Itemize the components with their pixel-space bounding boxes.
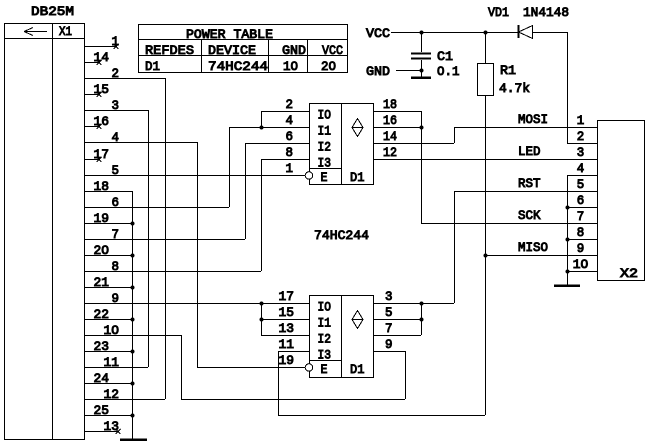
power table header VCC (322, 43, 343, 58)
pin 23 of X1 ground tap (84, 339, 135, 354)
svg-text:7: 7 (577, 209, 585, 224)
pin 22 of X1 ground tap (84, 307, 135, 322)
svg-text:SCK: SCK (518, 208, 541, 223)
node LED label (518, 144, 541, 159)
svg-text:LED: LED (518, 144, 541, 159)
svg-text:19: 19 (94, 211, 110, 226)
upper buffer direction diamond (352, 119, 363, 137)
pin 10 of X2 number (573, 257, 589, 272)
wire VCC to X2 pin2 (567, 32, 597, 144)
svg-text:R1: R1 (500, 63, 516, 78)
svg-text:12: 12 (383, 145, 397, 160)
svg-text:17: 17 (279, 289, 295, 304)
svg-text:O.1: O.1 (437, 64, 460, 79)
value 0.1 (437, 64, 460, 79)
svg-text:9: 9 (577, 241, 585, 256)
value 4.7k (499, 81, 530, 96)
wire pin6 X1 to I0/I1 of upper buffer (84, 127, 230, 210)
label DB25M (31, 4, 74, 19)
svg-text:4.7k: 4.7k (499, 81, 530, 96)
wire pin4 X1 to E input of lower buffer (84, 130, 305, 368)
svg-text:D1: D1 (350, 362, 365, 377)
label C1 (437, 49, 453, 64)
svg-text:RST: RST (518, 176, 541, 191)
pin 16 of X1 (unconnected stub) (84, 114, 109, 129)
upper buffer enable pin 1 (286, 161, 294, 176)
svg-text:4: 4 (286, 113, 294, 128)
pin 25 of X1 ground tap (84, 403, 135, 418)
wire upper I1 input, pin 4 (229, 113, 309, 128)
pin 19 of X1 ground tap (84, 211, 135, 226)
svg-text:I3: I3 (318, 348, 332, 363)
pin 5 of X2 number (577, 177, 585, 192)
svg-text:E: E (321, 362, 328, 377)
svg-text:1N4148: 1N4148 (523, 5, 569, 20)
svg-text:9: 9 (112, 291, 120, 306)
svg-text:D1: D1 (350, 170, 365, 185)
lower buffer D1 body (309, 295, 374, 378)
svg-text:GND: GND (282, 43, 306, 58)
wire upper I2 input, pin 6 (245, 129, 309, 144)
op-amp U? : upper buffer D1 body (309, 103, 374, 185)
svg-text:3: 3 (577, 145, 585, 160)
svg-text:12: 12 (104, 387, 120, 402)
wire pin5 X1 to E input of upper buffer (84, 163, 305, 178)
pin 1 of X2 number (577, 113, 585, 128)
connector X2 body (598, 121, 645, 281)
wire upper I0 input, pin 2 (259, 97, 309, 130)
pin 11 of X1 stub (84, 355, 148, 370)
svg-text:3: 3 (385, 289, 393, 304)
capacitor C1 (411, 32, 431, 70)
pin 3 of X2 number (577, 145, 585, 160)
svg-text:8: 8 (286, 145, 294, 160)
svg-text:MOSI: MOSI (518, 112, 548, 127)
pin 21 of X1 ground tap (84, 275, 135, 290)
wire pin8 X1 to I3 of upper buffer (84, 159, 262, 274)
svg-text:23: 23 (94, 339, 110, 354)
pin 15 of X1 (unconnected stub) (84, 82, 109, 97)
svg-text:3: 3 (112, 98, 120, 113)
node VCC label (366, 26, 390, 41)
svg-text:13: 13 (104, 419, 120, 434)
node GND label (366, 64, 390, 79)
svg-text:11: 11 (104, 355, 120, 370)
svg-text:18: 18 (383, 97, 397, 112)
svg-text:4: 4 (577, 161, 585, 176)
wire lower I0 input tie, pin 17 (259, 289, 294, 335)
power table frame (138, 25, 348, 73)
wire R1 to MISO net and lower I3 (483, 95, 487, 415)
pin 13 of X1 (unconnected stub) (84, 419, 121, 434)
svg-text:E: E (321, 170, 328, 185)
svg-text:1: 1 (286, 161, 294, 176)
lower buffer direction diamond (352, 311, 363, 329)
svg-text:18: 18 (94, 179, 110, 194)
power table header GND (282, 43, 306, 58)
connector X1 DB25M body (4, 23, 85, 440)
power table value 20 (321, 59, 336, 74)
svg-text:2: 2 (286, 97, 294, 112)
svg-text:VCC: VCC (366, 26, 390, 41)
svg-text:IO: IO (318, 108, 332, 123)
wire lower I3 input from MISO net, pin 11 (278, 337, 485, 416)
pin 6 of X2 number (577, 193, 585, 208)
wire upper output 12 / LED net to X2 pin3 (373, 145, 597, 160)
pin 20 of X1 ground tap (84, 243, 135, 258)
diode VD1 1N4148 (519, 25, 568, 39)
upper buffer enable circle (305, 172, 313, 180)
svg-text:X1: X1 (59, 24, 72, 39)
node MISO wire to X2 pin9 (485, 240, 597, 256)
svg-text:16: 16 (383, 113, 397, 128)
wire upper output 14 to MOSI net (373, 127, 455, 144)
ground symbol below X2 (554, 284, 580, 287)
wire VCC rail (391, 30, 518, 34)
wire pin3 X1 to pin11 X1 loopback net (84, 98, 149, 367)
label X1 (59, 24, 72, 39)
value 1N4148 (523, 5, 569, 20)
upper buffer label E (321, 170, 328, 185)
wire X2 ground pins 4,6,8,10 (565, 175, 597, 285)
svg-text:5: 5 (577, 177, 585, 192)
svg-text:15: 15 (94, 82, 110, 97)
lower buffer label I1 (318, 316, 332, 331)
wire lower output 3 to RST net (373, 191, 455, 306)
svg-text:9: 9 (385, 337, 393, 352)
svg-text:1O: 1O (573, 257, 589, 272)
lower buffer label I3 (318, 348, 332, 363)
svg-text:11: 11 (279, 337, 295, 352)
svg-text:REFDES: REFDES (145, 43, 194, 58)
power table title POWER TABLE (186, 27, 273, 42)
svg-text:25: 25 (94, 403, 110, 418)
svg-text:6: 6 (112, 195, 120, 210)
svg-text:1: 1 (577, 113, 585, 128)
svg-text:MISO: MISO (518, 240, 548, 255)
ground symbol at bottom of X1 ground bus (120, 438, 147, 441)
power table header DEVICE (208, 43, 256, 58)
wire lower output 7 join (373, 321, 421, 336)
wire lower I1 input, pin 15 (261, 305, 309, 320)
svg-text:14: 14 (383, 129, 397, 144)
wire upper output 18 to SCK net (373, 97, 422, 223)
svg-text:I2: I2 (318, 332, 332, 347)
lower buffer enable circle (305, 364, 313, 372)
svg-text:2O: 2O (94, 243, 110, 258)
label VD1 (488, 5, 509, 20)
upper buffer refdes D1 (350, 170, 365, 185)
pin 8 of X2 number (577, 225, 585, 240)
svg-text:7: 7 (385, 321, 393, 336)
svg-text:VCC: VCC (322, 43, 343, 58)
node RST wire to X2 pin5 (454, 176, 597, 192)
svg-text:24: 24 (94, 371, 110, 386)
node SCK wire to X2 pin7 (421, 208, 597, 224)
svg-text:4: 4 (112, 130, 120, 145)
svg-text:VD1: VD1 (488, 5, 509, 20)
svg-text:POWER TABLE: POWER TABLE (186, 27, 273, 42)
svg-text:8: 8 (577, 225, 585, 240)
svg-text:5: 5 (385, 305, 393, 320)
lower buffer label E (321, 362, 328, 377)
svg-text:13: 13 (279, 321, 295, 336)
wire lower I2 input, pin 13 (261, 321, 309, 336)
wire upper I3 input, pin 8 (261, 145, 309, 160)
connector X1 arrow symbol (24, 28, 47, 36)
svg-text:IO: IO (318, 300, 332, 315)
power table value D1 (145, 59, 160, 74)
resistor R1 (478, 32, 494, 96)
wire pin9 X1 to I0/I1/I2 of lower buffer (84, 291, 309, 306)
svg-text:17: 17 (94, 147, 110, 162)
svg-text:GND: GND (366, 64, 390, 79)
label X2 (620, 266, 638, 281)
power table header REFDES (145, 43, 194, 58)
svg-text:1O: 1O (283, 59, 298, 74)
pin 14 of X1 (unconnected stub) (84, 50, 109, 65)
wire pin7 X1 to I2 of upper buffer (84, 143, 246, 242)
svg-text:I1: I1 (318, 124, 332, 139)
lower buffer label I0 (318, 300, 332, 315)
label 74HC244 device name (314, 228, 369, 243)
svg-text:74HC244: 74HC244 (314, 228, 369, 243)
lower buffer label I2 (318, 332, 332, 347)
svg-text:19: 19 (279, 353, 295, 368)
svg-text:14: 14 (94, 50, 110, 65)
wire GND to C1 (396, 68, 424, 72)
svg-text:16: 16 (94, 114, 110, 129)
pin 7 of X2 number (577, 209, 585, 224)
svg-text:2: 2 (577, 129, 585, 144)
wire lower output 5 join (373, 303, 424, 335)
wire pin10 X1 to output 9 of lower buffer (84, 323, 406, 400)
pin 4 of X2 number (577, 161, 585, 176)
pin 24 of X1 ground tap (84, 371, 135, 386)
upper buffer label I0 (318, 108, 332, 123)
svg-text:21: 21 (94, 275, 110, 290)
svg-text:X2: X2 (620, 266, 638, 281)
svg-text:C1: C1 (437, 49, 453, 64)
svg-text:I2: I2 (318, 140, 332, 155)
svg-text:15: 15 (279, 305, 295, 320)
power table value 10 (283, 59, 298, 74)
svg-text:I1: I1 (318, 316, 332, 331)
upper buffer label I2 (318, 140, 332, 155)
wire pin2 X1 to pin12 X1 loopback net (84, 66, 166, 402)
svg-text:2O: 2O (321, 59, 336, 74)
svg-text:DB25M: DB25M (31, 4, 74, 19)
svg-text:I3: I3 (318, 156, 332, 171)
svg-text:74HC244: 74HC244 (208, 59, 268, 74)
svg-text:6: 6 (577, 193, 585, 208)
svg-text:D1: D1 (145, 59, 160, 74)
svg-text:DEVICE: DEVICE (208, 43, 256, 58)
svg-text:6: 6 (286, 129, 294, 144)
pin 9 of X2 number (577, 241, 585, 256)
pin 1 of X1 (unconnected stub) (84, 34, 119, 49)
upper buffer label I1 (318, 124, 332, 139)
pin 17 of X1 (unconnected stub) (84, 147, 109, 162)
ground bus from pin18 X1 (84, 179, 133, 439)
pin 2 of X2 number (577, 129, 585, 144)
svg-text:22: 22 (94, 307, 110, 322)
node MOSI wire to X2 pin1 (454, 112, 597, 128)
label R1 (500, 63, 516, 78)
power table value 74HC244 (208, 59, 268, 74)
lower buffer refdes D1 (350, 362, 365, 377)
wire upper output 16 join (373, 113, 424, 130)
svg-text:1O: 1O (104, 323, 120, 338)
svg-text:2: 2 (112, 66, 120, 81)
svg-text:5: 5 (112, 163, 120, 178)
svg-text:7: 7 (112, 227, 120, 242)
lower buffer enable pin 19 (279, 353, 295, 368)
ground symbol below C1 (411, 70, 431, 78)
upper buffer label I3 (318, 156, 332, 171)
wire lower output 9 to pin10 X1 (373, 337, 405, 352)
svg-text:8: 8 (112, 259, 120, 274)
